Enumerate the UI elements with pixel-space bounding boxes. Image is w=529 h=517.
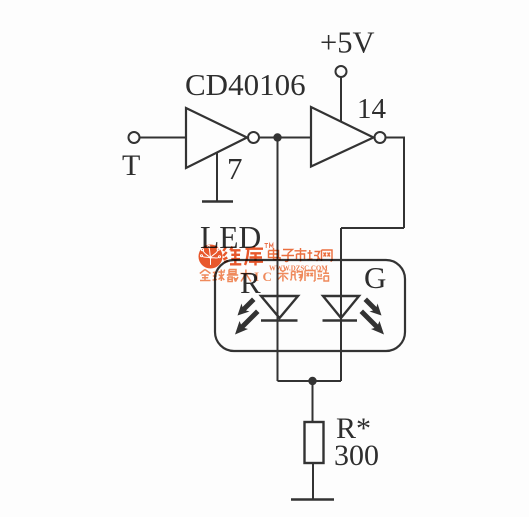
- 市: [295, 248, 307, 262]
- input terminal T: [129, 132, 140, 143]
- wire node A down to LED R: [277, 138, 279, 382]
- pin 7 stem: [216, 153, 218, 202]
- LED R arrows: [235, 298, 260, 335]
- wire left to LED G: [341, 227, 404, 229]
- LED G diode: [323, 296, 360, 321]
- 全: [200, 270, 211, 281]
- 大: [240, 270, 251, 282]
- ground: [291, 498, 334, 501]
- LED package outline: [215, 260, 405, 351]
- TM: [265, 244, 273, 249]
- 采: [277, 269, 288, 281]
- 子: [282, 250, 295, 262]
- ground (pin 7): [202, 200, 233, 203]
- svg-text:IC: IC: [254, 269, 275, 284]
- wire +5V to U1b pin 14: [340, 77, 342, 122]
- wire U1b output right: [386, 137, 405, 139]
- junction node bottom: [308, 377, 316, 385]
- svg-text:7: 7: [227, 151, 243, 186]
- 最: [227, 270, 238, 282]
- 网: [322, 250, 333, 261]
- resistor R* body: [305, 422, 324, 463]
- svg-text:+5V: +5V: [320, 26, 374, 60]
- LED G arrows: [360, 298, 385, 335]
- svg-text:14: 14: [357, 93, 387, 125]
- output bubble U1a: [248, 132, 259, 143]
- svg-text:300: 300: [334, 439, 379, 472]
- svg-text:CD40106: CD40106: [185, 67, 306, 102]
- 网 (row2): [305, 271, 315, 282]
- 购: [291, 271, 303, 282]
- inverter U1b: [311, 107, 374, 167]
- wire input: [140, 137, 187, 139]
- LED R diode: [261, 296, 298, 321]
- wire down right side: [403, 137, 405, 229]
- output bubble U1b: [375, 132, 386, 143]
- 球: [213, 270, 225, 282]
- wire bottom join: [278, 380, 342, 382]
- wire U1a output to node A: [259, 137, 311, 139]
- 场: [308, 250, 321, 261]
- wire join to resistor: [312, 381, 314, 422]
- wire down to LED G: [340, 228, 342, 381]
- +5V terminal: [336, 66, 347, 77]
- junction node A: [273, 133, 281, 141]
- svg-text:T: T: [122, 149, 140, 182]
- svg-text:G: G: [364, 260, 386, 295]
- wire resistor to ground: [312, 463, 314, 499]
- 库: [245, 246, 263, 266]
- watermark: [199, 244, 333, 285]
- 维: [223, 247, 241, 266]
- 电 (outline style): [269, 248, 281, 260]
- 站: [317, 269, 329, 281]
- inverter U1a: [186, 108, 247, 168]
